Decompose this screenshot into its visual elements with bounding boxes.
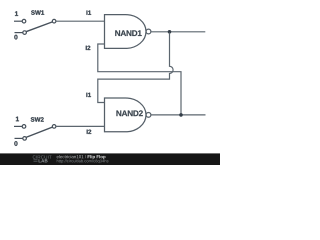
nand gate NAND2 bbox=[105, 98, 147, 132]
wire NAND1 output bbox=[151, 31, 205, 33]
CircuitLab logo CIRCUIT bbox=[33, 155, 52, 158]
watermark bar bbox=[0, 153, 220, 165]
wire NAND2 output bbox=[151, 114, 206, 116]
switch SW1 bbox=[14, 19, 56, 34]
label I1 (NAND1 input) bbox=[87, 11, 92, 15]
SW2 arm bbox=[26, 127, 52, 137]
label SW1 bbox=[31, 10, 44, 14]
label 1 (SW2) bbox=[16, 117, 19, 122]
label I2 (NAND2 input) bbox=[87, 130, 92, 134]
label 0 (SW1) bbox=[14, 35, 17, 40]
SW1 throw-0 contact bbox=[23, 31, 27, 35]
label SW2 bbox=[31, 117, 44, 121]
wire SW2 pole to NAND2 I2 bbox=[56, 125, 105, 127]
SW1 throw-1 contact bbox=[22, 19, 26, 23]
nand gate NAND1 bbox=[105, 15, 147, 49]
label 1 (SW1) bbox=[15, 11, 18, 16]
wire SW1 pole to NAND1 I1 bbox=[56, 20, 105, 22]
SW2 throw-1 lead bbox=[14, 125, 22, 127]
junction dot on NAND1 output bbox=[168, 30, 172, 34]
label I1 (NAND2 input) bbox=[86, 93, 91, 97]
watermark text line 1 bbox=[57, 155, 86, 158]
SW1 throw-1 lead bbox=[14, 20, 22, 22]
label I2 (NAND1 input) bbox=[86, 46, 91, 50]
SW1 pole contact bbox=[52, 19, 56, 23]
CircuitLab logo underlines bbox=[34, 159, 38, 161]
SW1 arm bbox=[26, 22, 52, 32]
junction dot on NAND2 output bbox=[179, 113, 183, 117]
switch SW2 bbox=[14, 125, 56, 141]
SW2 throw-1 contact bbox=[22, 125, 26, 129]
SW2 throw-0 lead bbox=[15, 137, 23, 139]
label NAND1 bbox=[115, 30, 141, 36]
label NAND2 bbox=[116, 110, 142, 116]
wire NAND2 output to NAND1 I2 bbox=[98, 44, 181, 115]
label 0 (SW2) bbox=[14, 141, 17, 146]
wire NAND1 output to NAND2 I1 with crossover hop bbox=[98, 33, 173, 103]
SW2 throw-0 contact bbox=[23, 137, 27, 141]
NAND2 output bubble bbox=[146, 113, 151, 118]
watermark text line 2 bbox=[57, 159, 109, 163]
NAND1 output bubble bbox=[146, 29, 151, 34]
SW2 pole contact bbox=[52, 125, 56, 129]
CircuitLab logo LAB bbox=[39, 159, 48, 162]
SW1 throw-0 lead bbox=[15, 32, 23, 34]
